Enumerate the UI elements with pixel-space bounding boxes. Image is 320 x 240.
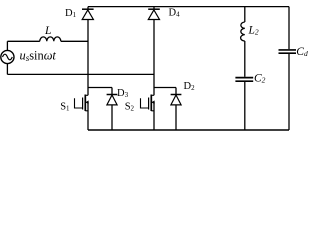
wire S1 D3 top bbox=[88, 87, 112, 89]
svg-text:D1: D1 bbox=[65, 8, 77, 19]
svg-text:ussinωt: ussinωt bbox=[20, 49, 57, 64]
diode D4 bbox=[148, 7, 160, 20]
wire source bottom lead bbox=[6, 64, 8, 75]
wire top rail bbox=[88, 6, 289, 8]
wire S2 drain-source vertical bbox=[153, 88, 155, 96]
wire right rail upper bbox=[288, 7, 290, 50]
diode D1 bbox=[82, 7, 94, 20]
svg-text:Cd: Cd bbox=[296, 46, 308, 58]
svg-text:S2: S2 bbox=[125, 101, 135, 112]
diode D2 bbox=[171, 88, 182, 131]
svg-text:L2: L2 bbox=[248, 25, 259, 37]
transistor S1 bbox=[75, 95, 89, 112]
diode D3 bbox=[107, 88, 118, 131]
svg-text:D3: D3 bbox=[117, 88, 129, 99]
svg-text:C2: C2 bbox=[254, 73, 266, 85]
wire S2 D2 top bbox=[154, 87, 176, 89]
wire inductor to left leg bbox=[61, 40, 88, 42]
wire source top horizontal bbox=[7, 40, 39, 42]
inductor L2 bbox=[241, 22, 245, 41]
inductor L bbox=[40, 37, 61, 41]
ac source us bbox=[1, 50, 14, 63]
wire L2 to C2 bbox=[244, 41, 246, 77]
wire source bottom horizontal bbox=[7, 73, 154, 75]
wire C2 to bottom rail bbox=[244, 82, 246, 130]
capacitor C2 bbox=[235, 78, 253, 82]
svg-text:S1: S1 bbox=[60, 101, 70, 112]
svg-text:D4: D4 bbox=[169, 7, 181, 18]
wire L2 branch top bbox=[244, 7, 246, 22]
capacitor Cd bbox=[279, 50, 297, 53]
svg-text:L: L bbox=[44, 25, 51, 37]
wire S1 drain-source vertical bbox=[87, 88, 89, 96]
svg-text:D2: D2 bbox=[184, 81, 196, 92]
wire left leg bbox=[87, 20, 89, 88]
transistor S2 bbox=[141, 95, 155, 112]
wire right rail lower bbox=[288, 54, 290, 130]
wire bottom rail bbox=[88, 129, 289, 131]
wire source top lead bbox=[6, 41, 8, 50]
wire right leg bbox=[153, 20, 155, 88]
